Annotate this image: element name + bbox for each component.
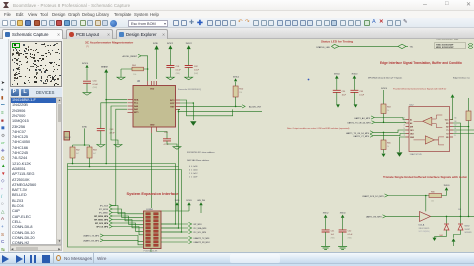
capacitor C52 xyxy=(339,212,354,246)
terminal I2C_SDA_MP4 xyxy=(161,226,206,230)
svg-text:B1: B1 xyxy=(446,123,448,125)
svg-text:(NM): (NM) xyxy=(331,237,335,239)
svg-text:Edge Interface Signal Translat: Edge Interface Signal Translation, Buffe… xyxy=(380,61,462,65)
svg-text:4k7: 4k7 xyxy=(93,153,96,155)
terminal I2C_SCL_MP4 xyxy=(161,230,206,234)
svg-text:74AVC4T245: 74AVC4T245 xyxy=(410,153,423,156)
title Status LED for Testing xyxy=(321,39,353,43)
svg-text:ITXB_SCK/DO/DIP: ITXB_SCK/DO/DIP xyxy=(436,44,454,46)
ground left of R64 xyxy=(117,69,125,80)
wire U12 right pin2 down right xyxy=(453,123,461,216)
note top-right net list xyxy=(435,37,474,49)
svg-text:MDM_SCK/DO/DIP: MDM_SCK/DO/DIP xyxy=(436,47,454,49)
diode D1b TVS xyxy=(458,216,463,234)
wire U6 bottom pin to C04 xyxy=(157,132,168,139)
svg-text:GND: GND xyxy=(410,137,415,139)
svg-text:3V3C0: 3V3C0 xyxy=(340,212,346,214)
note MPU motherboard signals xyxy=(368,76,402,79)
resistor R50 pull-up xyxy=(233,76,244,106)
svg-text:Tristate Single Ended buffered: Tristate Single Ended buffered interface… xyxy=(383,175,467,179)
wire IPC_MISO to CONN1 xyxy=(112,213,143,221)
wire SPI_MOSI_MP4 to CONN1 xyxy=(112,216,143,224)
svg-text:OE2: OE2 xyxy=(410,133,414,135)
connector pin header tan body at left edge xyxy=(64,132,71,141)
ground below R65 xyxy=(382,154,386,157)
resistor R64 xyxy=(121,65,148,76)
wire long horizontal under IC xyxy=(178,111,262,113)
svg-text:3V3C2: 3V3C2 xyxy=(323,212,329,214)
junction dots on connector right xyxy=(175,223,183,233)
blue marker dot xyxy=(308,79,310,81)
svg-text:T1: T1 xyxy=(446,130,448,132)
svg-text:1k: 1k xyxy=(387,146,389,148)
svg-text:SCL: SCL xyxy=(134,103,139,105)
svg-text:BRAKE: BRAKE xyxy=(101,66,108,69)
connector CONN1 xyxy=(144,209,162,252)
svg-text:Note: Output enables are activ: Note: Output enables are active LOW and … xyxy=(287,127,350,130)
svg-text:SPI_SCK_MP4: SPI_SCK_MP4 xyxy=(95,222,109,225)
wire STATUS_LED to TXL xyxy=(341,45,398,47)
svg-text:ACCEL_RESET: ACCEL_RESET xyxy=(123,55,138,58)
wire U12 right pin4 exits right xyxy=(453,129,474,131)
svg-text:0.1uF: 0.1uF xyxy=(93,84,99,86)
svg-text:USART2_RX_MP4: USART2_RX_MP4 xyxy=(194,241,210,244)
svg-text:STATUS_LED: STATUS_LED xyxy=(316,46,330,49)
svg-text:INT_MP4: INT_MP4 xyxy=(194,224,202,226)
svg-text:4k7: 4k7 xyxy=(76,153,79,155)
wire U6 left pin3 to ground xyxy=(111,106,127,144)
svg-text:T2: T2 xyxy=(446,133,448,135)
svg-text:UART1_AO_MP3: UART1_AO_MP3 xyxy=(354,117,371,120)
capacitor C30 xyxy=(83,80,99,92)
svg-text:1 0 0x1C: 1 0 0x1C xyxy=(189,173,198,175)
svg-text:14: 14 xyxy=(455,118,457,120)
svg-text:USART_SCK_DO_MP3: USART_SCK_DO_MP3 xyxy=(362,195,384,198)
wire enable to buffer xyxy=(425,196,427,212)
terminal IPC_MOSI xyxy=(99,207,112,211)
svg-text:UART1_TX_OE_D4_MP4: UART1_TX_OE_D4_MP4 xyxy=(346,132,370,135)
terminal UART1_TX_OE_D4_MP4 xyxy=(347,121,374,125)
wire D1a to ground xyxy=(435,236,447,238)
wire ACCEL_RESET to R64 node xyxy=(141,56,148,81)
svg-text:(NM): (NM) xyxy=(348,237,352,239)
wire UART1_AO to U12 xyxy=(374,118,405,120)
terminal USART1_TX_MP4 xyxy=(83,234,103,238)
diode D1a TVS xyxy=(444,216,449,236)
capacitor C34 with power and ground xyxy=(333,73,347,107)
svg-text:I2C_SCL_MP4: I2C_SCL_MP4 xyxy=(194,232,207,234)
svg-text:MPU/Motherboard 3dx LQTT Signa: MPU/Motherboard 3dx LQTT Signals xyxy=(368,76,402,79)
wire BRAKE vertical xyxy=(105,73,107,164)
terminal USART2_RX_MP4 xyxy=(161,240,210,244)
wire SPI_MISO_MP4 to CONN1 xyxy=(112,220,143,228)
U12 inner buffer triangle B xyxy=(414,136,445,145)
wire U6 left pin4 down to expansion area xyxy=(110,109,127,205)
wire right edge vertical xyxy=(468,127,470,217)
diode D1 label xyxy=(459,209,462,211)
svg-text:ITXB_SCK/DO/DIP IN4L: ITXB_SCK/DO/DIP IN4L xyxy=(436,39,459,40)
capacitor C02 with power and ground xyxy=(185,43,200,80)
ground below U12 left xyxy=(397,152,403,156)
terminal UART1_AO_MP3 xyxy=(354,116,374,120)
power 3V3C0 xyxy=(82,63,89,80)
terminal UART1_CT_MP4 xyxy=(353,134,373,138)
terminal USART2_TX_MP4 xyxy=(161,236,209,240)
IC U12 buffer xyxy=(409,105,450,157)
terminal UART1_TX_OE_D4_MP4 lower xyxy=(346,131,373,135)
svg-text:ACCEL_INT: ACCEL_INT xyxy=(249,106,262,109)
svg-text:3V3C0: 3V3C0 xyxy=(381,88,387,90)
svg-text:Edge Interface Co: Edge Interface Co xyxy=(453,76,471,79)
svg-text:IPC_MISO: IPC_MISO xyxy=(99,213,109,215)
svg-text:USART1_TX_MP4: USART1_TX_MP4 xyxy=(83,235,99,238)
title Edge Interface Signal Translation xyxy=(380,61,462,65)
capacitor C51 xyxy=(322,212,336,246)
svg-text:5V6ST: 5V6ST xyxy=(465,229,471,231)
ground below C04 xyxy=(173,147,181,150)
svg-text:I2C_SDA_MP4: I2C_SDA_MP4 xyxy=(194,227,207,230)
title Tristate Single Ended xyxy=(383,175,467,179)
U6 right pin stubs xyxy=(176,100,181,109)
terminal SPI_CS_MP4 xyxy=(96,225,112,229)
terminal SPI_SCK_MP4 xyxy=(95,221,112,225)
wire input to buffer xyxy=(386,215,420,217)
svg-text:IPC_SCK: IPC_SCK xyxy=(100,206,109,208)
svg-text:3V3C0: 3V3C0 xyxy=(334,73,340,75)
svg-text:3V3C0: 3V3C0 xyxy=(352,73,358,75)
resistor R63b xyxy=(87,145,98,167)
resistor R62 xyxy=(70,145,81,164)
U12 inner pin labels xyxy=(410,118,449,139)
power below D1b xyxy=(452,238,456,246)
svg-text:3: 3 xyxy=(404,121,405,123)
svg-text:0.1uF: 0.1uF xyxy=(348,234,354,236)
node BRAKE xyxy=(101,66,108,73)
note I2C slave address table xyxy=(187,151,215,179)
bus wires horizontal xyxy=(68,163,182,170)
wire IPC_SCK to CONN1 xyxy=(112,206,143,214)
svg-text:Freescale FXOS8700CQ: Freescale FXOS8700CQ xyxy=(178,88,201,91)
wire IPC_MOSI to CONN1 xyxy=(112,209,143,217)
wire to R66 xyxy=(388,195,429,197)
ground below C52 xyxy=(338,247,347,250)
svg-text:SOD323: SOD323 xyxy=(465,232,472,234)
svg-text:9: 9 xyxy=(455,135,456,137)
capacitor C03 xyxy=(97,129,116,145)
ground under pin3 wire xyxy=(114,145,122,148)
terminal IPC_SCK xyxy=(100,204,112,208)
svg-text:3V3D: 3V3D xyxy=(153,43,159,45)
resistor R65 xyxy=(381,132,392,154)
resistor R67 right edge xyxy=(466,98,471,127)
power 3V3C0 above R63 xyxy=(381,88,387,104)
svg-text:NM: NM xyxy=(440,235,443,237)
note diode part xyxy=(465,225,472,234)
svg-text:0 0 0x1E: 0 0 0x1E xyxy=(189,166,198,168)
svg-text:SA1 SA0 Slave address: SA1 SA0 Slave address xyxy=(187,159,209,162)
buffer U15-A xyxy=(419,212,431,234)
capacitor C01 with power and ground xyxy=(166,43,181,80)
wire U12 right pin5 exits right xyxy=(453,133,474,135)
wire SPI_SCK_MP4 to CONN1 xyxy=(112,223,143,231)
note differential pairs xyxy=(393,88,447,91)
svg-text:LMG_P00: LMG_P00 xyxy=(197,200,205,202)
ground arrow below U6 right xyxy=(190,121,196,126)
wire U6 right pin2 to ground arrow xyxy=(180,102,194,120)
svg-text:6: 6 xyxy=(404,132,405,134)
IC U6 FXOS8700CQ xyxy=(133,81,201,127)
ground below C30 xyxy=(83,93,91,96)
svg-text:1M: 1M xyxy=(239,92,242,94)
wire U6 left pin1 to BRAKE net xyxy=(106,99,127,101)
svg-text:3V3C2: 3V3C2 xyxy=(167,43,174,45)
capacitor C04 xyxy=(163,132,177,146)
svg-text:SPI_MISO_MP4: SPI_MISO_MP4 xyxy=(94,219,109,222)
svg-text:UART1_RX_MP3: UART1_RX_MP3 xyxy=(366,216,383,219)
svg-text:B5: B5 xyxy=(446,137,448,139)
svg-text:SOT-23(DBV): SOT-23(DBV) xyxy=(419,231,430,233)
bus wires turn down to connector xyxy=(161,164,182,233)
wire CT to U12 xyxy=(373,134,405,136)
svg-text:System Expansion Interface: System Expansion Interface xyxy=(127,191,180,196)
wire USART1_RX_MP4 to CONN1 xyxy=(103,240,143,245)
wire U6 right pin4 down xyxy=(179,109,181,166)
svg-text:0 1 0x1D: 0 1 0x1D xyxy=(189,170,198,172)
wire USART1_TX_MP4 to CONN1 xyxy=(103,236,143,242)
svg-text:3C Accelerometer Magnetometer: 3C Accelerometer Magnetometer xyxy=(85,41,134,45)
wire buffer output xyxy=(431,216,474,218)
svg-text:CELL04: CELL04 xyxy=(64,137,71,139)
wire SPI_CS_MP4 to CONN1 xyxy=(112,227,143,235)
svg-text:U15-A: U15-A xyxy=(419,224,425,227)
svg-text:UART1_TX_OE_D4_MP4: UART1_TX_OE_D4_MP4 xyxy=(347,122,371,125)
wire U6 right pin1 jog xyxy=(180,100,233,116)
ground below C51 xyxy=(321,247,330,250)
capacitor C38 with power and ground xyxy=(350,73,364,107)
svg-text:IPC_MOSI: IPC_MOSI xyxy=(99,209,109,211)
svg-text:BYP: BYP xyxy=(170,103,175,105)
wire U6 left pin2 down to C03 xyxy=(101,103,127,129)
svg-text:Status LED for Testing: Status LED for Testing xyxy=(321,39,353,43)
note output enables xyxy=(287,127,350,130)
resistor R63 xyxy=(381,104,392,123)
svg-text:3V3C0: 3V3C0 xyxy=(186,200,192,202)
svg-text:5: 5 xyxy=(404,128,405,130)
svg-text:OE1: OE1 xyxy=(410,130,414,132)
svg-text:1.0uF: 1.0uF xyxy=(194,69,200,71)
terminal STATUS_LED xyxy=(316,44,341,49)
svg-text:SDA: SDA xyxy=(134,98,139,101)
svg-text:A1: A1 xyxy=(410,118,412,121)
terminal IPC_MISO xyxy=(99,211,112,215)
svg-text:GND: GND xyxy=(150,125,155,127)
svg-text:74LVC1G125: 74LVC1G125 xyxy=(419,228,430,230)
wire D1b to power xyxy=(454,235,461,238)
resistor R66 xyxy=(429,191,447,203)
note NM red xyxy=(440,235,443,237)
svg-text:0.1uF: 0.1uF xyxy=(359,94,365,96)
terminal INT_MP4 xyxy=(161,222,202,226)
svg-text:A2: A2 xyxy=(410,122,412,125)
svg-text:4.7uF: 4.7uF xyxy=(164,144,170,146)
terminal SPI_MOSI_MP4 xyxy=(94,214,112,218)
power 3V3C0 right of R66 xyxy=(444,185,450,190)
wire U6 bottom pin1 to connector xyxy=(150,133,152,208)
svg-text:1 1 0x1F: 1 1 0x1F xyxy=(189,177,198,179)
wire U12 right pin3 xyxy=(453,126,469,128)
svg-text:4: 4 xyxy=(404,125,405,127)
wire ACCEL_INT net xyxy=(180,106,242,108)
svg-text:SPI_CS_MP4: SPI_CS_MP4 xyxy=(96,226,109,229)
svg-text:FXOS8700 I2C slave address: FXOS8700 I2C slave address xyxy=(187,151,215,154)
U6 top pin stubs xyxy=(148,81,157,86)
svg-text:SPI_MOSI_MP4: SPI_MOSI_MP4 xyxy=(94,215,109,218)
svg-text:VDD: VDD xyxy=(150,88,155,90)
U12 pin numbers xyxy=(404,118,457,138)
U6 bottom pin stubs xyxy=(151,127,156,133)
svg-text:1k: 1k xyxy=(387,110,389,112)
svg-text:3V3D: 3V3D xyxy=(82,127,88,129)
svg-text:UART1_CT_MP4: UART1_CT_MP4 xyxy=(353,135,369,138)
svg-text:10k: 10k xyxy=(431,200,434,202)
U6 left pin stubs xyxy=(128,100,134,113)
ground below C03 xyxy=(97,145,105,148)
terminal USART_SCK_DO_MP3 xyxy=(362,194,388,198)
svg-text:2: 2 xyxy=(404,118,405,120)
svg-text:USART2_TX_MP4: USART2_TX_MP4 xyxy=(194,237,210,240)
svg-text:B2: B2 xyxy=(446,126,448,128)
svg-text:RST: RST xyxy=(170,106,175,108)
svg-text:0.1uF: 0.1uF xyxy=(176,69,182,71)
svg-text:(?): (?) xyxy=(86,46,89,48)
wire UART1_TX_OE to U12 xyxy=(375,121,406,124)
wire left edge vertical xyxy=(68,164,152,248)
svg-text:(NM): (NM) xyxy=(93,87,98,89)
terminal UART1_RX_MP3 xyxy=(366,215,386,219)
svg-text:4.7uF: 4.7uF xyxy=(110,132,116,134)
svg-text:3V3C0: 3V3C0 xyxy=(82,63,89,65)
power terminals above connector xyxy=(175,200,180,211)
svg-text:(NM): (NM) xyxy=(176,73,181,75)
wire connector bottom stub xyxy=(150,249,152,253)
note edge interface conn xyxy=(453,76,471,79)
U6 pin name texts xyxy=(134,88,175,126)
title System Expansion Interface xyxy=(127,191,180,196)
svg-text:(NM): (NM) xyxy=(194,73,199,75)
svg-text:3V3C2: 3V3C2 xyxy=(233,76,240,78)
U12 right pin stubs xyxy=(450,120,454,138)
U12 left pin stubs xyxy=(406,120,410,138)
svg-text:3V3C2: 3V3C2 xyxy=(186,43,193,45)
wire lower OE to U12 xyxy=(373,130,405,132)
terminal diamond TXL xyxy=(398,44,414,48)
terminal ACCEL_RESET xyxy=(123,54,142,58)
svg-text:USART1_RX_MP4: USART1_RX_MP4 xyxy=(83,240,99,243)
power 3V3D above U6 xyxy=(153,43,159,79)
wire U12 grounded pin xyxy=(400,137,406,152)
title 3-Axis Accelerometer Magnetometer xyxy=(85,41,134,49)
terminal ACCEL_INT xyxy=(242,105,262,109)
svg-text:3V3D: 3V3D xyxy=(175,200,180,202)
ground left of D1 xyxy=(433,237,437,242)
U12 inner buffer triangle A xyxy=(414,115,443,128)
power 3V3D pullup rail xyxy=(73,127,90,146)
terminal SPI_MISO_MP4 xyxy=(94,218,112,222)
svg-text:Provide Differential twisted i: Provide Differential twisted interface S… xyxy=(393,88,447,91)
svg-text:3V3C0: 3V3C0 xyxy=(444,185,450,187)
terminal USART1_RX_MP4 xyxy=(83,239,103,243)
power above U12 right xyxy=(451,94,455,119)
